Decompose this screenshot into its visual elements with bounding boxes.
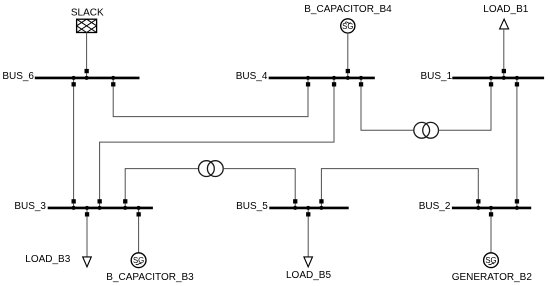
- static generator GENERATOR_B2: [484, 253, 499, 268]
- switch at BUS_3 (line to BUS_4): [98, 199, 102, 203]
- bus BUS_3: [48, 207, 153, 210]
- svg-text:BUS_6: BUS_6: [2, 71, 34, 82]
- junction dot on BUS_1 (line to BUS_2): [515, 76, 519, 80]
- svg-text:BUS_5: BUS_5: [236, 201, 268, 212]
- svg-text:LOAD_B1: LOAD_B1: [483, 4, 528, 15]
- wire LOAD_B5 from BUS_5: [307, 209, 309, 257]
- junction dot B_CAPACITOR_B4 on BUS_4: [346, 76, 350, 80]
- switch at BUS_4 (line to BUS_1): [359, 82, 363, 86]
- load LOAD_B1 arrow: [500, 19, 509, 29]
- wire BUS_3 to transformer T2: [125, 169, 198, 207]
- transformer T1 (BUS_4 / BUS_1): [414, 122, 439, 138]
- wire line BUS_4 to BUS_3: [100, 79, 334, 206]
- switch at BUS_2 (line to BUS_5): [476, 199, 480, 203]
- junction dot on BUS_2 (line to BUS_1): [515, 206, 519, 210]
- svg-text:GENERATOR_B2: GENERATOR_B2: [452, 272, 533, 283]
- bus BUS_4: [269, 77, 375, 80]
- wire transformer T1 to BUS_1: [439, 79, 491, 130]
- svg-text:BUS_4: BUS_4: [236, 71, 268, 82]
- wire LOAD_B3 from BUS_3: [86, 209, 88, 257]
- switch LOAD_B3 at BUS_3: [85, 212, 89, 216]
- switch at BUS_3 (line to BUS_6): [72, 199, 76, 203]
- load LOAD_B5 arrow: [304, 257, 313, 267]
- switch at BUS_5 (line to BUS_3): [293, 199, 297, 203]
- junction dot on BUS_3 (line to BUS_4): [98, 206, 102, 210]
- wire B_CAPACITOR_B4 to BUS_4: [347, 33, 349, 77]
- junction dot on BUS_5 (line to BUS_3): [293, 206, 297, 210]
- wire GENERATOR_B2 from BUS_2: [490, 209, 492, 253]
- switch GENERATOR_B2 at BUS_2: [489, 212, 493, 216]
- bus BUS_5: [269, 207, 348, 210]
- svg-text:LOAD_B5: LOAD_B5: [286, 270, 331, 281]
- switch at BUS_3 (line to BUS_5): [123, 199, 127, 203]
- switch at BUS_4 (line to BUS_3): [332, 82, 336, 86]
- wire BUS_4 to transformer T1: [361, 79, 414, 130]
- svg-text:SG: SG: [342, 22, 353, 31]
- wire line BUS_6 to BUS_3: [73, 79, 75, 206]
- bus BUS_1: [452, 77, 544, 80]
- junction dot on BUS_4 (line to BUS_6): [306, 76, 310, 80]
- svg-text:BUS_3: BUS_3: [14, 201, 46, 212]
- svg-text:B_CAPACITOR_B4: B_CAPACITOR_B4: [304, 4, 392, 15]
- wire SLACK to BUS_6: [86, 33, 88, 77]
- svg-text:SG: SG: [133, 256, 144, 265]
- junction dot on BUS_6 (line to BUS_4): [111, 76, 115, 80]
- switch at BUS_1 (line to BUS_2): [515, 82, 519, 86]
- junction dot on BUS_4 (line to BUS_3): [332, 76, 336, 80]
- switch at BUS_6 (line to BUS_3): [72, 82, 76, 86]
- junction dot GENERATOR_B2 on BUS_2: [489, 206, 493, 210]
- switch LOAD_B5 at BUS_5: [306, 212, 310, 216]
- junction dot on BUS_1 (line to BUS_4): [489, 76, 493, 80]
- junction dot on BUS_3 (line to BUS_5): [123, 206, 127, 210]
- junction dot SLACK on BUS_6: [85, 76, 89, 80]
- wire line BUS_1 to BUS_2: [516, 79, 518, 206]
- switch at BUS_1 (line to BUS_4): [489, 82, 493, 86]
- svg-text:SG: SG: [485, 256, 496, 265]
- svg-text:LOAD_B3: LOAD_B3: [25, 254, 70, 265]
- switch at BUS_4 (line to BUS_6): [306, 82, 310, 86]
- junction dot on BUS_4 (line to BUS_1): [359, 76, 363, 80]
- wire LOAD_B1 to BUS_1: [503, 29, 505, 76]
- switch LOAD_B1 at BUS_1: [502, 69, 506, 73]
- switch B_CAPACITOR_B3 at BUS_3: [137, 212, 141, 216]
- junction dot on BUS_3 (line to BUS_6): [72, 206, 76, 210]
- junction dot LOAD_B3 on BUS_3: [85, 206, 89, 210]
- svg-text:SLACK: SLACK: [71, 7, 104, 18]
- switch B_CAPACITOR_B4 at BUS_4: [346, 69, 350, 73]
- wire line BUS_5 to BUS_2: [321, 169, 478, 207]
- wire line BUS_6 to BUS_4: [113, 79, 308, 117]
- bus BUS_2: [452, 207, 531, 210]
- svg-text:BUS_1: BUS_1: [421, 71, 453, 82]
- junction dot on BUS_5 (line to BUS_2): [319, 206, 323, 210]
- static generator B_CAPACITOR_B3: [131, 253, 146, 268]
- load LOAD_B3 arrow: [83, 257, 92, 267]
- switch SLACK at BUS_6: [85, 69, 89, 73]
- switch at BUS_5 (line to BUS_2): [319, 199, 323, 203]
- junction dot on BUS_2 (line to BUS_5): [476, 206, 480, 210]
- transformer T2 (BUS_3 / BUS_5): [199, 161, 224, 177]
- switch at BUS_2 (line to BUS_1): [515, 199, 519, 203]
- svg-text:B_CAPACITOR_B3: B_CAPACITOR_B3: [106, 272, 194, 283]
- junction dot B_CAPACITOR_B3 on BUS_3: [137, 206, 141, 210]
- external grid SLACK symbol: [77, 19, 97, 32]
- static generator B_CAPACITOR_B4: [341, 19, 355, 33]
- svg-text:BUS_2: BUS_2: [419, 201, 451, 212]
- wire B_CAPACITOR_B3 from BUS_3: [138, 209, 140, 253]
- junction dot on BUS_6 (line to BUS_3): [72, 76, 76, 80]
- switch at BUS_6 (line to BUS_4): [111, 82, 115, 86]
- bus BUS_6: [35, 77, 140, 80]
- wire transformer T2 to BUS_5: [223, 169, 295, 207]
- junction dot LOAD_B5 on BUS_5: [306, 206, 310, 210]
- junction dot LOAD_B1 on BUS_1: [502, 76, 506, 80]
